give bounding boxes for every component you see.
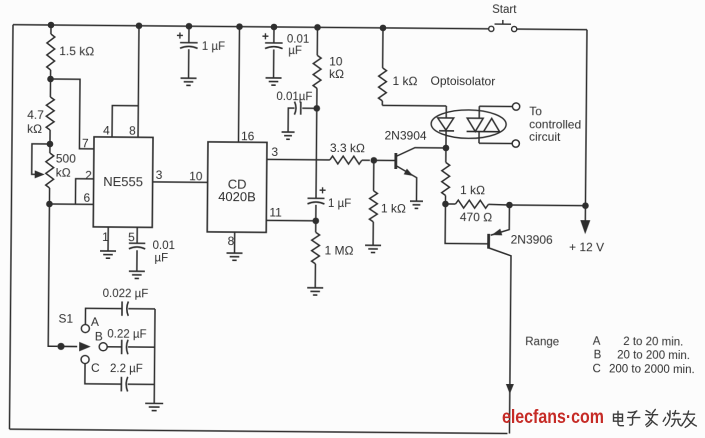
label 4.7 kOhm	[27, 108, 44, 136]
svg-text:+: +	[176, 29, 183, 43]
watermark elecfans.com logo	[502, 407, 604, 428]
svg-text:200 to 2000 min.: 200 to 2000 min.	[609, 363, 695, 376]
svg-text:1 µF: 1 µF	[328, 198, 351, 210]
ground C1	[180, 78, 196, 85]
pin label 6	[83, 191, 90, 205]
svg-text:6: 6	[83, 191, 90, 205]
resistor R5 1M	[311, 221, 319, 288]
label 0.01uF C3	[276, 91, 312, 103]
transistor Q1 2N3904	[395, 148, 445, 201]
label 1 MOhm	[324, 243, 353, 257]
svg-text:Optoisolator: Optoisolator	[430, 74, 495, 89]
label 10 kOhm	[329, 55, 344, 81]
ground C4	[129, 271, 145, 278]
capacitor C8 2.2uF	[121, 377, 127, 392]
IC U1 NE555 timer	[93, 137, 153, 228]
ground Q1 emitter	[410, 201, 423, 208]
svg-text:B: B	[594, 349, 602, 361]
label C contact	[91, 361, 100, 375]
wire CD4020 pin16 to rail	[238, 27, 239, 142]
svg-text:0.022 µF: 0.022 µF	[103, 288, 149, 300]
node junction R9/R10/Q2 base	[442, 201, 449, 208]
wire NE555 pin2-pin6 tie	[75, 179, 93, 205]
svg-text:20 to 200 min.: 20 to 200 min.	[617, 350, 690, 363]
wire Q2 base	[445, 204, 489, 244]
pin label 1	[102, 230, 109, 244]
svg-text:3: 3	[271, 145, 278, 159]
label 1 kOhm R8	[392, 74, 417, 88]
wire S1 common vertical	[153, 309, 156, 403]
node top rail junction pin16	[236, 23, 243, 30]
wire top supply rail left of Start switch	[13, 25, 489, 29]
potentiometer R3 500k	[46, 144, 54, 204]
terminal A circle	[81, 324, 89, 332]
ground C3	[282, 132, 295, 139]
svg-text:µF: µF	[288, 45, 302, 57]
label 470 Ohm	[460, 210, 492, 224]
pin label 3 CD4020	[271, 145, 278, 159]
svg-text:NE555: NE555	[103, 174, 143, 189]
label 1.5 kOhm	[59, 44, 94, 58]
pin label 16	[241, 129, 255, 143]
label +12V	[569, 240, 604, 254]
label To controlled circuit	[529, 104, 581, 144]
opto-isolator U3 ellipse	[431, 110, 506, 139]
label 0.022 uF	[103, 288, 149, 300]
pin label 3 NE555	[156, 168, 163, 182]
resistor R2 4.7k	[46, 79, 54, 144]
wire NE555 pin4-pin8 bridge	[112, 106, 138, 138]
wire B to C7	[107, 346, 121, 348]
wire NE555 pin3 to CD4020 pin10	[153, 181, 208, 183]
wire left border	[9, 25, 13, 429]
svg-text:3: 3	[156, 168, 163, 182]
label 2N3906	[511, 233, 553, 247]
label A contact	[91, 315, 99, 329]
resistor R4 10k	[313, 27, 322, 108]
node junction +12V rail	[582, 202, 589, 209]
capacitor C4 0.01uF pin5	[129, 243, 145, 249]
pin label 10	[189, 169, 203, 183]
label S1	[58, 312, 73, 326]
svg-text:5: 5	[128, 230, 135, 244]
svg-text:+: +	[319, 183, 326, 197]
terminal circle top	[512, 103, 519, 110]
wire CD4020 pin3	[267, 158, 330, 161]
label range A	[593, 336, 684, 349]
wire opto output bottom	[479, 142, 512, 144]
resistor R7 1k base pulldown	[369, 160, 378, 245]
label 0.01 uF C2	[287, 34, 310, 58]
wire emitter node to +12V rail	[509, 204, 585, 207]
transistor Q2 2N3906	[487, 205, 515, 434]
label Optoisolator	[430, 74, 495, 89]
label Range	[525, 336, 559, 348]
wire NE555 pin5	[136, 227, 138, 242]
svg-text:0.01µF: 0.01µF	[276, 91, 312, 103]
svg-text:3.3 kΩ: 3.3 kΩ	[330, 141, 365, 155]
svg-text:S1: S1	[58, 312, 73, 326]
triac inside opto	[466, 106, 499, 143]
node top rail junction A1	[48, 22, 55, 29]
svg-text:1 kΩ: 1 kΩ	[381, 201, 406, 215]
svg-text:2N3904: 2N3904	[384, 128, 426, 142]
capacitor C7 0.22uF	[122, 340, 128, 355]
label range B	[594, 349, 690, 362]
node top rail junction pin8	[136, 22, 143, 29]
capacitor C2 0.01uF	[262, 27, 283, 78]
resistor R10 470	[445, 200, 509, 208]
node top rail junction R4	[314, 24, 321, 31]
diode LED inside opto	[437, 106, 454, 148]
svg-text:To: To	[529, 104, 542, 118]
wire CD4020 pin11	[266, 219, 315, 221]
switch S1 wiper arrow	[61, 342, 91, 352]
svg-text:kΩ: kΩ	[329, 67, 344, 81]
svg-text:2N3906: 2N3906	[511, 233, 553, 247]
node junction Q1 collector/opto LED	[443, 145, 450, 152]
wire pot wiper loop	[32, 144, 50, 179]
label 0.22 uF	[107, 329, 146, 341]
wire top rail right of Start switch	[517, 28, 587, 31]
svg-text:2.2 µF: 2.2 µF	[110, 363, 143, 375]
wire NE555 pin7 connection	[50, 79, 95, 149]
svg-text:circuit: circuit	[529, 130, 561, 144]
terminal C circle	[81, 355, 89, 363]
terminal B circle	[99, 343, 107, 351]
wire A to C6	[85, 308, 122, 325]
svg-text:2 to 20 min.: 2 to 20 min.	[623, 336, 683, 349]
power +12V arrow	[580, 206, 590, 235]
wire S1 feed	[48, 204, 59, 346]
resistor R9 1k LED cathode	[442, 148, 450, 204]
node junction pot/pin6	[46, 201, 53, 208]
wire C7 to common	[128, 346, 155, 348]
wire C8 to common	[128, 383, 155, 385]
label 1 uF C5	[328, 198, 351, 210]
svg-text:1 kΩ: 1 kΩ	[392, 74, 417, 88]
label 1 kOhm R7	[381, 201, 406, 215]
wire bottom rail (ground return)	[9, 429, 507, 433]
capacitor C5 1uF reset	[307, 183, 326, 221]
svg-text:kΩ: kΩ	[56, 166, 71, 180]
label 1 uF C1	[202, 41, 225, 53]
wire CD4020 pin8	[234, 232, 236, 252]
IC U2 CD4020B counter	[207, 142, 267, 233]
pin label 4	[103, 123, 110, 137]
svg-text:Start: Start	[492, 4, 517, 16]
svg-text:4020B: 4020B	[218, 189, 256, 204]
node top rail junction C1	[186, 23, 193, 30]
pin label 8 CD4020	[228, 234, 235, 248]
svg-text:16: 16	[241, 129, 255, 143]
label 3.3 kOhm	[330, 141, 365, 155]
ground NE555 pin1	[100, 251, 116, 258]
pin label 11	[269, 205, 282, 219]
ground R5	[307, 288, 323, 295]
label range C	[592, 363, 694, 376]
pin label 8	[129, 124, 136, 138]
node junction pin11/C5/R5	[312, 217, 319, 224]
ground C2	[265, 78, 281, 85]
capacitor C1 1uF	[176, 26, 198, 78]
wire C6 to common	[128, 308, 155, 310]
pin label 2	[85, 168, 92, 182]
svg-text:11: 11	[269, 205, 282, 219]
svg-text:7: 7	[82, 136, 89, 150]
wire NE555 pin8 to rail	[137, 26, 140, 137]
wire 2N3904 base	[374, 159, 395, 161]
wire NE555 pin1	[107, 227, 109, 250]
svg-text:elecfans·com: elecfans·com	[502, 407, 604, 428]
svg-text:0.22 µF: 0.22 µF	[107, 329, 146, 341]
switch S2 Start pushbutton	[489, 20, 517, 32]
svg-text:0.01: 0.01	[153, 240, 175, 252]
svg-text:kΩ: kΩ	[27, 122, 42, 136]
resistor R1 1.5k	[47, 25, 55, 79]
label 2.2 uF	[110, 363, 143, 375]
svg-text:8: 8	[129, 124, 136, 138]
svg-text:+: +	[262, 29, 269, 43]
node S1 wiper	[57, 343, 64, 350]
svg-text:A: A	[91, 315, 99, 329]
svg-text:1 kΩ: 1 kΩ	[460, 183, 485, 197]
capacitor C6 0.022uF	[122, 301, 128, 315]
capacitor C3 0.01uF bypass	[288, 102, 317, 132]
ground CD4020 pin8	[226, 253, 242, 260]
node top rail junction C2	[271, 24, 278, 31]
watermark chinese characters dian zi fa shao you	[614, 409, 697, 427]
node junction base 2N3904	[371, 157, 378, 164]
svg-text:B: B	[95, 329, 103, 343]
svg-text:8: 8	[228, 234, 235, 248]
svg-text:µF: µF	[154, 252, 168, 264]
wire right +12V rail	[585, 30, 587, 206]
svg-text:470 Ω: 470 Ω	[460, 210, 492, 224]
label 0.01 uF pin5 cap	[152, 240, 175, 265]
node junction 4.7k/pot	[47, 141, 54, 148]
svg-text:1 µF: 1 µF	[202, 41, 225, 53]
svg-text:500: 500	[56, 152, 76, 166]
svg-text:C: C	[592, 363, 600, 375]
svg-text:1 MΩ: 1 MΩ	[324, 243, 353, 257]
pin label 5	[128, 230, 135, 244]
svg-text:1: 1	[102, 230, 109, 244]
node junction R4/C3	[313, 105, 320, 112]
svg-text:+ 12 V: + 12 V	[569, 240, 604, 254]
node top rail junction R8	[380, 25, 387, 32]
wire C4 to ground	[136, 250, 138, 270]
ground S1 common	[145, 403, 163, 410]
svg-text:2: 2	[85, 168, 92, 182]
resistor R6 3.3k	[330, 156, 370, 164]
svg-text:C: C	[91, 361, 100, 375]
svg-text:4.7: 4.7	[27, 108, 44, 122]
label 1 kOhm R9	[460, 183, 485, 197]
svg-text:1.5 kΩ: 1.5 kΩ	[59, 44, 94, 58]
svg-text:Range: Range	[525, 336, 559, 348]
svg-text:A: A	[593, 336, 601, 348]
pin label 7	[82, 136, 89, 150]
label Start	[492, 4, 517, 16]
ground R7	[365, 245, 381, 252]
svg-text:10: 10	[189, 169, 203, 183]
label 500 kOhm	[56, 152, 77, 180]
svg-text:4: 4	[103, 123, 110, 137]
wire opto output top	[479, 105, 512, 107]
label B contact	[95, 329, 103, 343]
terminal circle bottom	[512, 140, 519, 147]
node junction Q2 emitter	[506, 202, 513, 209]
wire NE555 pin6	[49, 203, 93, 205]
wire reset net vertical	[315, 108, 318, 198]
svg-text:0.01: 0.01	[287, 34, 309, 46]
node junction 1.5k/4.7k	[47, 76, 54, 83]
resistor R8 1k opto LED	[378, 28, 447, 106]
wire C to C8	[85, 364, 122, 385]
label 2N3904	[384, 128, 426, 142]
